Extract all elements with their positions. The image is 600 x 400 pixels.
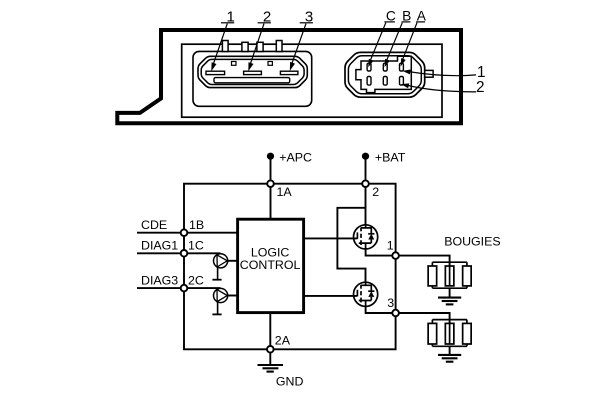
- connector J1 keyway 1: [232, 62, 237, 66]
- svg-text:CONTROL: CONTROL: [240, 258, 301, 272]
- transistor Q3 (DIAG1 driver): [212, 254, 237, 280]
- glow plug group 1 (output 1): [399, 256, 471, 305]
- wire DIAG3 input: [137, 287, 221, 289]
- output pin 3: [392, 310, 399, 317]
- wire 1A to logic: [270, 184, 272, 219]
- connector J1 tab 3: [257, 42, 263, 51]
- connector J2 inner shell: [348, 56, 421, 94]
- pin 1B: [181, 229, 188, 236]
- wire CDE input: [137, 232, 237, 234]
- svg-text:2: 2: [476, 79, 485, 96]
- leader line to terminal 2: [406, 85, 476, 92]
- connector J2 pin slot 2 (bottom-right): [400, 77, 404, 86]
- svg-text:+APC: +APC: [279, 150, 312, 164]
- connector J1 tab 2: [242, 42, 248, 51]
- leader line to pin 2: [250, 24, 265, 67]
- connector J1 surround box: [193, 51, 312, 106]
- connector J2 locking tab: [425, 70, 433, 77]
- module housing outline: [117, 30, 461, 123]
- svg-text:CDE: CDE: [141, 218, 167, 232]
- connector J1 tab 4: [276, 41, 282, 52]
- wire Q1 source to node 1: [366, 249, 396, 256]
- leader line to terminal 1: [408, 72, 476, 76]
- connector J1 inner shell: [201, 59, 304, 84]
- MOSFET Q2 (output 3): [354, 282, 378, 306]
- connector J1 pin 3 blade: [280, 71, 298, 74]
- connector J2 pin slot bottom-middle: [383, 77, 387, 86]
- +BAT supply terminal: [362, 153, 369, 160]
- svg-text:2: 2: [372, 185, 379, 199]
- pin 2: [362, 180, 369, 187]
- leader line to pin C: [370, 23, 386, 63]
- leader line to pin 1: [213, 24, 228, 67]
- svg-text:+BAT: +BAT: [375, 150, 406, 164]
- pin 1C: [181, 250, 188, 257]
- pin 2C: [181, 285, 188, 292]
- svg-text:1: 1: [387, 239, 394, 253]
- leader line to pin A: [402, 23, 417, 62]
- connector J1 pin 1 blade: [206, 71, 225, 74]
- svg-text:3: 3: [387, 296, 394, 310]
- MOSFET Q1 (output 1): [354, 225, 378, 249]
- transistor Q4 (DIAG3 driver): [212, 288, 237, 314]
- pin 1A: [267, 180, 274, 187]
- connector J1 outer shell: [198, 56, 307, 87]
- connector J2 pin slot C (top-left): [367, 63, 371, 71]
- svg-text:DIAG1: DIAG1: [141, 239, 178, 253]
- wire DIAG1 input: [137, 252, 221, 254]
- svg-text:2A: 2A: [275, 334, 291, 348]
- connector J2 pin slot A / 1 (top-right): [400, 63, 404, 71]
- connector J2 pin slot B (top-middle): [383, 63, 387, 71]
- glow plug group 2 (output 3): [399, 313, 471, 362]
- svg-text:GND: GND: [276, 374, 304, 388]
- svg-text:1B: 1B: [189, 218, 204, 232]
- ground GND: [269, 353, 271, 365]
- pin 2A: [267, 346, 274, 353]
- svg-text:DIAG3: DIAG3: [141, 273, 178, 287]
- wire gate Q2: [304, 295, 358, 297]
- output pin 1: [392, 252, 399, 259]
- module boundary rectangle: [184, 184, 396, 350]
- connector J2 pin slot bottom-left: [367, 77, 371, 86]
- connector J1 keyway 2: [268, 62, 272, 66]
- connector J2 outer shell: [345, 52, 425, 97]
- +APC supply terminal: [267, 153, 274, 160]
- wire Q2 source to node 3: [366, 306, 396, 313]
- leader line to pin B: [386, 23, 403, 63]
- wire gate Q1: [304, 237, 358, 239]
- logic control block U1: [238, 219, 304, 312]
- wire branch to Q2 drain: [337, 208, 365, 282]
- svg-text:1A: 1A: [277, 185, 293, 199]
- connector J2 key frame: [356, 56, 411, 92]
- leader line to pin 3: [291, 24, 306, 66]
- connector J1 lower blade slot: [214, 78, 290, 83]
- svg-text:BOUGIES: BOUGIES: [444, 234, 500, 248]
- connector J1 pin 2 blade: [244, 71, 262, 74]
- module inner face rectangle: [182, 44, 442, 117]
- connector J1 tab 1: [222, 41, 228, 52]
- svg-text:2C: 2C: [188, 273, 204, 287]
- wire logic to pin 2A: [269, 313, 271, 350]
- wire node2 down to Q1 drain: [365, 184, 367, 225]
- svg-text:1C: 1C: [188, 239, 204, 253]
